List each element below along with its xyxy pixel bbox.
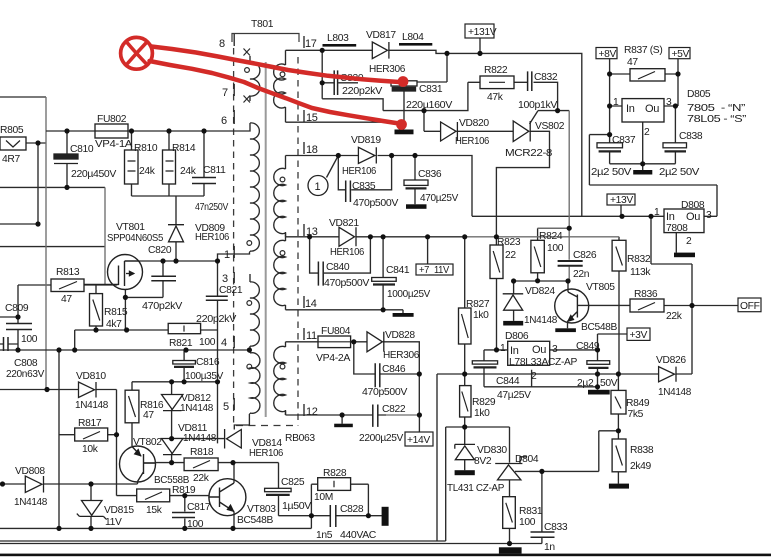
- svg-text:+5V: +5V: [672, 49, 690, 60]
- svg-text:HER306: HER306: [369, 64, 406, 75]
- svg-text:+8V: +8V: [599, 49, 617, 60]
- svg-text:10k: 10k: [82, 444, 99, 455]
- svg-text:D806: D806: [505, 331, 529, 342]
- svg-text:VD810: VD810: [76, 371, 106, 382]
- svg-text:R821: R821: [169, 338, 193, 349]
- svg-text:RB063: RB063: [285, 433, 315, 444]
- svg-text:VD830: VD830: [477, 445, 507, 456]
- svg-text:220µ160V: 220µ160V: [406, 100, 452, 111]
- svg-text:R817: R817: [78, 418, 102, 429]
- svg-text:R832: R832: [627, 254, 651, 265]
- svg-text:1000µ25V: 1000µ25V: [387, 289, 430, 300]
- svg-text:2µ2 50V: 2µ2 50V: [659, 167, 700, 178]
- svg-text:VD824: VD824: [525, 286, 555, 297]
- svg-text:C836: C836: [418, 169, 442, 180]
- svg-text:HER106: HER106: [249, 448, 284, 459]
- svg-text:1: 1: [613, 97, 619, 108]
- svg-text:FU804: FU804: [321, 326, 351, 337]
- svg-text:C841: C841: [386, 265, 410, 276]
- svg-text:R824: R824: [539, 231, 563, 242]
- svg-text:220p2kV: 220p2kV: [342, 86, 383, 97]
- svg-text:47: 47: [143, 410, 154, 421]
- svg-text:24k: 24k: [139, 166, 156, 177]
- svg-text:12: 12: [306, 406, 318, 418]
- svg-text:1: 1: [500, 343, 506, 354]
- svg-text:R837 (S): R837 (S): [624, 45, 662, 56]
- svg-text:100µ35V: 100µ35V: [185, 371, 223, 382]
- svg-text:100: 100: [21, 334, 38, 345]
- svg-text:D805: D805: [687, 89, 711, 100]
- svg-text:C840: C840: [326, 262, 350, 273]
- svg-text:VP4-2A: VP4-2A: [316, 353, 350, 364]
- svg-text:220µ450V: 220µ450V: [71, 169, 116, 180]
- svg-text:470p500V: 470p500V: [362, 387, 407, 398]
- svg-text:In: In: [666, 211, 675, 223]
- svg-text:TL431 CZ-AP: TL431 CZ-AP: [447, 483, 504, 494]
- svg-text:+131V: +131V: [468, 27, 497, 38]
- svg-text:VT801: VT801: [116, 222, 145, 233]
- svg-text:13: 13: [306, 226, 318, 238]
- svg-text:2µ2 50V: 2µ2 50V: [591, 167, 632, 178]
- svg-text:VT805: VT805: [586, 282, 615, 293]
- svg-text:R823: R823: [497, 237, 521, 248]
- svg-text:1: 1: [224, 249, 230, 261]
- svg-text:1n5: 1n5: [316, 530, 333, 541]
- svg-text:113k: 113k: [630, 267, 651, 278]
- svg-text:8V2: 8V2: [474, 456, 492, 467]
- svg-text:VD828: VD828: [385, 330, 415, 341]
- svg-text:50V: 50V: [600, 378, 618, 389]
- svg-text:VD808: VD808: [15, 466, 45, 477]
- svg-text:470µ25V: 470µ25V: [420, 193, 458, 204]
- svg-text:C828: C828: [340, 504, 364, 515]
- svg-text:3: 3: [552, 344, 558, 355]
- svg-text:VD820: VD820: [459, 118, 489, 129]
- svg-text:C846: C846: [382, 364, 406, 375]
- svg-text:R818: R818: [190, 447, 214, 458]
- svg-text:22k: 22k: [666, 311, 683, 322]
- svg-text:C820: C820: [148, 245, 172, 256]
- svg-text:HER106: HER106: [195, 232, 230, 243]
- svg-text:2200µ25V: 2200µ25V: [359, 433, 403, 444]
- svg-text:100: 100: [187, 519, 204, 530]
- svg-text:7805 - “N”: 7805 - “N”: [687, 103, 746, 114]
- svg-text:47: 47: [627, 57, 638, 68]
- svg-text:47k: 47k: [487, 92, 504, 103]
- svg-text:2: 2: [686, 236, 692, 247]
- svg-text:C817: C817: [187, 502, 211, 513]
- svg-text:7k5: 7k5: [628, 409, 644, 420]
- svg-text:2µ2: 2µ2: [577, 378, 594, 389]
- svg-text:L803: L803: [327, 33, 349, 44]
- svg-text:47µ25V: 47µ25V: [497, 390, 531, 401]
- svg-text:C825: C825: [281, 477, 305, 488]
- svg-text:SPP04N60S5: SPP04N60S5: [107, 233, 164, 244]
- svg-text:HER306: HER306: [383, 350, 420, 361]
- svg-text:440VAC: 440VAC: [340, 530, 377, 541]
- svg-text:BC548B: BC548B: [581, 322, 617, 333]
- svg-text:R815: R815: [104, 307, 128, 318]
- svg-text:2: 2: [531, 371, 537, 382]
- svg-text:C832: C832: [534, 72, 558, 83]
- svg-text:In: In: [626, 103, 635, 115]
- svg-text:+7_11V: +7_11V: [419, 265, 449, 276]
- svg-text:C809: C809: [5, 303, 29, 314]
- svg-text:3: 3: [222, 273, 228, 285]
- svg-text:R838: R838: [630, 445, 654, 456]
- svg-text:L804: L804: [402, 32, 424, 43]
- svg-text:OFF: OFF: [740, 301, 760, 312]
- svg-text:R810: R810: [134, 143, 158, 154]
- svg-text:C821: C821: [219, 285, 243, 296]
- svg-text:R836: R836: [634, 289, 658, 300]
- svg-text:10M: 10M: [314, 492, 333, 503]
- svg-text:4: 4: [221, 337, 227, 349]
- svg-text:C810: C810: [70, 144, 94, 155]
- svg-text:1N4148: 1N4148: [14, 497, 48, 508]
- svg-text:C835: C835: [352, 181, 376, 192]
- svg-text:VD817: VD817: [366, 30, 396, 41]
- svg-text:+14V: +14V: [407, 435, 430, 446]
- svg-text:78L05 - “S”: 78L05 - “S”: [687, 114, 747, 125]
- svg-text:C822: C822: [382, 404, 406, 415]
- svg-text:R813: R813: [56, 267, 80, 278]
- svg-text:HER106: HER106: [455, 136, 490, 147]
- svg-text:CZ-AP: CZ-AP: [548, 357, 577, 368]
- svg-text:100: 100: [547, 243, 564, 254]
- svg-text:C816: C816: [196, 357, 220, 368]
- svg-text:2k49: 2k49: [630, 461, 652, 472]
- svg-text:Ou: Ou: [686, 211, 700, 223]
- svg-text:4k7: 4k7: [106, 319, 122, 330]
- svg-text:17: 17: [305, 38, 317, 50]
- svg-text:1N4148: 1N4148: [524, 315, 558, 326]
- svg-text:1N4148: 1N4148: [75, 400, 109, 411]
- svg-text:In: In: [510, 345, 519, 357]
- svg-text:VP4-1A: VP4-1A: [95, 139, 133, 150]
- svg-text:MCR22-8: MCR22-8: [505, 148, 553, 159]
- svg-text:C849: C849: [576, 341, 600, 352]
- svg-text:R831: R831: [519, 506, 543, 517]
- svg-text:VD821: VD821: [329, 218, 359, 229]
- svg-text:R849: R849: [626, 398, 650, 409]
- svg-text:11: 11: [306, 330, 317, 342]
- svg-text:R805: R805: [0, 125, 24, 136]
- svg-text:1k0: 1k0: [474, 408, 490, 419]
- svg-text:VD826: VD826: [656, 355, 686, 366]
- svg-text:8: 8: [219, 38, 225, 50]
- svg-text:18: 18: [306, 144, 318, 156]
- svg-text:47: 47: [61, 294, 72, 305]
- svg-text:2: 2: [644, 127, 650, 138]
- svg-text:22k: 22k: [193, 473, 210, 484]
- svg-text:HER106: HER106: [342, 166, 377, 177]
- svg-text:470p2kV: 470p2kV: [142, 301, 183, 312]
- svg-text:+13V: +13V: [610, 195, 633, 206]
- svg-text:22n: 22n: [573, 269, 590, 280]
- svg-text:+3V: +3V: [630, 330, 648, 341]
- svg-text:470p500V: 470p500V: [353, 198, 398, 209]
- svg-text:220p2kV: 220p2kV: [196, 314, 237, 325]
- svg-text:1µ50V: 1µ50V: [282, 501, 311, 512]
- svg-text:3: 3: [666, 97, 672, 108]
- svg-text:220n63V: 220n63V: [6, 369, 44, 380]
- svg-text:11V: 11V: [105, 517, 122, 528]
- svg-text:VT802: VT802: [133, 437, 162, 448]
- svg-text:24k: 24k: [180, 166, 197, 177]
- svg-text:100: 100: [519, 517, 536, 528]
- svg-text:15: 15: [306, 112, 318, 124]
- svg-text:R829: R829: [472, 397, 496, 408]
- svg-text:R819: R819: [172, 485, 196, 496]
- svg-text:VD819: VD819: [351, 135, 381, 146]
- svg-text:1N4148: 1N4148: [183, 433, 217, 444]
- svg-text:7: 7: [222, 87, 228, 99]
- svg-text:C838: C838: [679, 131, 703, 142]
- svg-text:HER106: HER106: [330, 247, 365, 258]
- svg-text:D804: D804: [515, 454, 539, 465]
- svg-text:1N4148: 1N4148: [180, 403, 214, 414]
- svg-text:15k: 15k: [146, 505, 163, 516]
- svg-text:C837: C837: [612, 135, 636, 146]
- svg-text:C808: C808: [14, 358, 38, 369]
- svg-text:C831: C831: [419, 84, 443, 95]
- svg-text:C833: C833: [544, 522, 568, 533]
- svg-text:47n250V: 47n250V: [195, 202, 228, 213]
- svg-text:VD815: VD815: [104, 505, 134, 516]
- svg-text:D808: D808: [681, 200, 705, 211]
- svg-text:R827: R827: [466, 299, 490, 310]
- svg-text:1: 1: [315, 181, 321, 193]
- svg-text:C826: C826: [573, 250, 597, 261]
- svg-text:T801: T801: [251, 19, 274, 30]
- svg-text:1: 1: [654, 207, 660, 218]
- svg-text:BC548B: BC548B: [237, 515, 273, 526]
- svg-text:100p1kV: 100p1kV: [518, 100, 557, 111]
- svg-text:Ou: Ou: [532, 344, 546, 356]
- svg-text:1k0: 1k0: [473, 310, 489, 321]
- svg-text:5: 5: [223, 401, 229, 413]
- svg-text:R814: R814: [172, 143, 196, 154]
- svg-text:R828: R828: [323, 468, 347, 479]
- svg-text:VT803: VT803: [247, 504, 276, 515]
- svg-text:VS802: VS802: [535, 121, 565, 132]
- svg-text:470p500V: 470p500V: [324, 278, 369, 289]
- svg-text:6: 6: [221, 115, 227, 127]
- svg-text:1n: 1n: [544, 542, 555, 553]
- svg-text:C844: C844: [496, 376, 520, 387]
- svg-text:100: 100: [199, 337, 216, 348]
- svg-text:3: 3: [706, 210, 712, 221]
- svg-text:4R7: 4R7: [2, 154, 20, 165]
- svg-text:14: 14: [305, 298, 317, 310]
- svg-text:FU802: FU802: [97, 114, 127, 125]
- svg-text:1N4148: 1N4148: [658, 387, 692, 398]
- svg-text:Ou: Ou: [645, 103, 659, 115]
- svg-text:R822: R822: [484, 65, 508, 76]
- svg-text:7808: 7808: [666, 223, 688, 234]
- svg-text:L78L33A: L78L33A: [509, 357, 548, 368]
- svg-text:22: 22: [505, 250, 516, 261]
- svg-text:C811: C811: [203, 165, 226, 176]
